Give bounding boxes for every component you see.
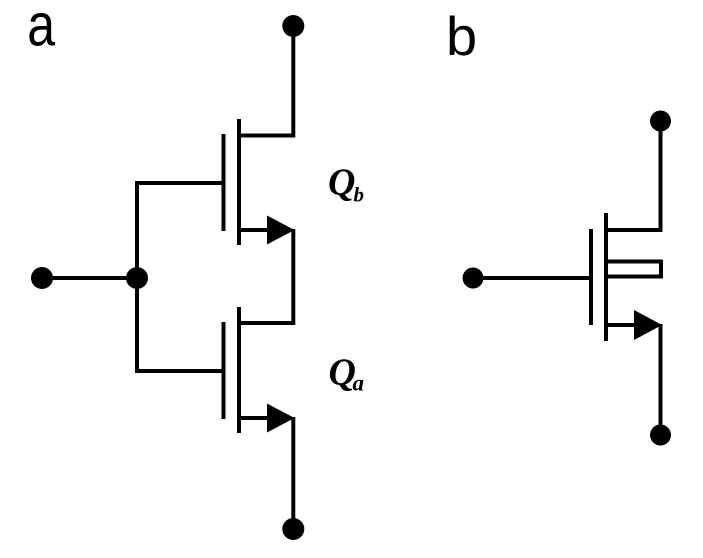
wire drain to top terminal (panel b) (633, 121, 661, 230)
svg-text:a: a (27, 0, 55, 59)
input terminal node (panel b) (463, 268, 484, 289)
wire source to bottom terminal (panel b) (659, 324, 663, 435)
panel label b (446, 6, 477, 67)
wire Qb gate (135, 181, 222, 185)
wire Qa source to bottom terminal (291, 417, 295, 529)
wire gate bus vertical (panel a) (135, 183, 139, 371)
top terminal node (panel a) (282, 15, 304, 37)
transistor Qa (224, 307, 295, 433)
panel label a (27, 0, 55, 59)
bottom terminal node (panel b) (650, 425, 671, 446)
svg-text:a: a (353, 371, 365, 396)
wire Qa gate (135, 369, 222, 373)
wire Qb source to Qa drain (241, 229, 293, 323)
label Qb (328, 162, 364, 207)
input terminal node (panel a) (31, 267, 53, 289)
top terminal node (panel b) (650, 111, 671, 132)
transistor Qb (224, 119, 295, 245)
node junction (panel a) (126, 267, 148, 289)
label Qa (329, 352, 365, 396)
wire gate (panel b) (473, 276, 589, 280)
wire input to junction (panel a) (42, 276, 137, 280)
svg-text:b: b (446, 6, 477, 67)
svg-text:Q: Q (328, 162, 355, 204)
wire Qb drain to top terminal (266, 26, 293, 136)
svg-text:b: b (354, 183, 365, 207)
transistor Q composite (panel b) (591, 213, 662, 341)
bottom terminal node (panel a) (282, 518, 304, 540)
